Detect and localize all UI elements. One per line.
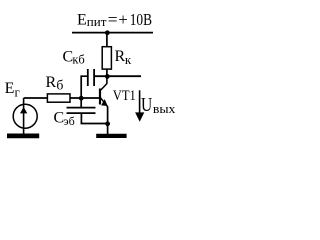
wire: collector node horizontal: [95, 75, 141, 77]
wire: Ceb top lead: [80, 98, 82, 107]
svg-text:б: б: [56, 79, 63, 94]
node: emitter junction dot: [105, 121, 110, 126]
ground bar under Eг: [7, 133, 39, 138]
emitter diagonal: [101, 98, 108, 107]
label Uвых: [141, 94, 176, 116]
capacitor Cкб plates: [88, 69, 94, 86]
svg-text:к: к: [125, 52, 132, 67]
wire: Ckb left lead: [81, 76, 87, 98]
svg-text:VT1: VT1: [113, 88, 136, 104]
emitter arrowhead: [101, 99, 108, 106]
svg-text:R: R: [46, 74, 57, 91]
label Cэб: [54, 110, 75, 129]
svg-text:кб: кб: [72, 53, 85, 67]
svg-text:пит: пит: [87, 14, 107, 29]
collector diagonal: [101, 84, 107, 91]
svg-text:U: U: [141, 94, 153, 116]
base bar: [99, 89, 101, 105]
label Rб: [46, 74, 64, 94]
wire: supply rail: [72, 32, 153, 34]
collector vertical: [106, 76, 108, 84]
svg-text:R: R: [115, 48, 126, 65]
capacitor Cэб: [67, 108, 96, 114]
wire: Rk bottom lead: [106, 69, 108, 77]
label Cкб: [63, 48, 85, 66]
wire: Eг vertical lead: [23, 98, 25, 134]
svg-text:E: E: [77, 12, 87, 29]
svg-text:г: г: [15, 85, 20, 100]
svg-text:вых: вых: [153, 101, 176, 116]
svg-text:эб: эб: [64, 114, 75, 128]
svg-text:10В: 10В: [130, 10, 152, 29]
label Eпит=+10В: [77, 10, 152, 29]
svg-text:=: =: [108, 10, 118, 29]
label Eг: [5, 80, 20, 100]
node: base junction dot: [79, 96, 84, 101]
emitter vertical: [107, 106, 109, 134]
node: rail junction dot: [105, 30, 110, 35]
ground bar under emitter: [96, 134, 126, 138]
resistor Rк body: [102, 47, 111, 69]
wire: Ceb bottom lead: [81, 114, 107, 124]
source Eг circle: [13, 104, 37, 128]
wire: base horizontal: [24, 97, 100, 99]
arrow inside Eг (points up): [20, 107, 27, 114]
svg-text:E: E: [5, 80, 15, 97]
output arrow Uвых: [139, 90, 141, 114]
transistor VT1: [100, 76, 108, 134]
wire: rail down to Rk: [106, 33, 108, 47]
label Rк: [115, 48, 132, 67]
svg-text:+: +: [118, 10, 127, 29]
resistor Rб body: [47, 94, 70, 102]
node: collector junction dot: [105, 74, 110, 79]
